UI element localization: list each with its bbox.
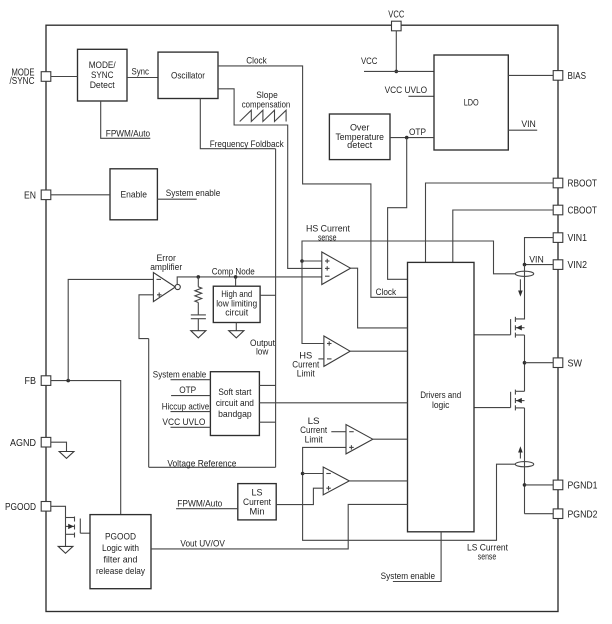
resistor R1 bbox=[195, 277, 202, 315]
sawtooth slope waveform bbox=[240, 110, 286, 121]
junction VIN node bbox=[523, 263, 527, 267]
svg-text:LS: LS bbox=[252, 487, 263, 497]
svg-text:LDO: LDO bbox=[464, 98, 479, 108]
wire PWM comparator output bbox=[351, 268, 408, 328]
wire SW rail bbox=[524, 335, 526, 391]
junction FB bbox=[66, 379, 70, 383]
wire HS limit output bbox=[350, 350, 407, 352]
wire System enable into soft start bbox=[171, 379, 211, 381]
wire VIN1 bbox=[525, 238, 554, 265]
junction PGND bbox=[523, 483, 527, 487]
svg-text:System enable: System enable bbox=[166, 188, 221, 198]
block LS Current Min bbox=[238, 484, 276, 520]
svg-text:low: low bbox=[256, 347, 269, 357]
wire AGND to ground bbox=[51, 442, 67, 451]
ground arrow output low bbox=[229, 331, 244, 338]
transistor Q2 LS fet bbox=[474, 390, 525, 411]
wire OTP into soft start bbox=[171, 395, 210, 397]
ground AGND bbox=[59, 452, 74, 459]
svg-text:Oscillator: Oscillator bbox=[171, 71, 205, 81]
wire LS current sense bbox=[303, 447, 516, 540]
wire voltage reference left edge bbox=[148, 339, 150, 468]
wire Frequency Foldback bbox=[200, 99, 275, 149]
pin RBOOT bbox=[553, 178, 563, 188]
wire Hiccup active into soft start bbox=[171, 411, 211, 413]
block MODE/SYNC Detect bbox=[78, 49, 128, 101]
svg-text:Min: Min bbox=[250, 506, 265, 516]
block PGOOD logic bbox=[90, 515, 151, 589]
junction comp node bbox=[234, 275, 238, 279]
svg-text:BIAS: BIAS bbox=[568, 71, 587, 82]
svg-text:VIN: VIN bbox=[521, 119, 536, 129]
chip boundary bbox=[46, 25, 558, 611]
svg-text:sense: sense bbox=[318, 233, 337, 243]
op-amp U4 LS current limit bbox=[346, 425, 373, 454]
wire VIN2 bbox=[525, 264, 554, 266]
svg-text:PGND1: PGND1 bbox=[568, 481, 598, 492]
current sense ellipse HS bbox=[515, 271, 533, 276]
wire HS current sense bbox=[302, 241, 515, 344]
block Over Temperature detect bbox=[329, 114, 390, 160]
svg-text:SYNC: SYNC bbox=[91, 70, 114, 80]
wire VIN rail to HS fet drain bbox=[516, 265, 525, 319]
svg-text:circuit: circuit bbox=[225, 308, 248, 318]
svg-text:VIN1: VIN1 bbox=[568, 233, 588, 244]
op-amp U3 HS current limit bbox=[324, 336, 350, 366]
wire slope compensation bbox=[218, 89, 322, 269]
svg-text:Drivers and: Drivers and bbox=[420, 390, 461, 400]
wire System enable stub bbox=[157, 198, 196, 200]
pin CBOOT bbox=[553, 205, 563, 215]
svg-text:Limit: Limit bbox=[305, 434, 323, 444]
wire soft start lower tap bbox=[259, 421, 275, 423]
svg-text:PGND2: PGND2 bbox=[568, 509, 598, 520]
block Enable bbox=[110, 169, 157, 220]
junction OTP bbox=[405, 136, 409, 140]
wire LS source rail bbox=[524, 408, 526, 514]
svg-text:EN: EN bbox=[24, 190, 36, 201]
transistor Q1 HS fet bbox=[474, 317, 525, 338]
svg-text:FPWM/Auto: FPWM/Auto bbox=[106, 129, 150, 139]
wire LS current min to zero cross plus bbox=[276, 488, 323, 504]
svg-text:Comp Node: Comp Node bbox=[212, 266, 255, 276]
wire limiting circuit right bbox=[260, 294, 276, 296]
block High and low limiting circuit bbox=[213, 286, 260, 322]
junction SW bbox=[523, 361, 527, 365]
junction comp resistor bbox=[197, 275, 201, 279]
wire Sync bbox=[127, 77, 158, 79]
pin VIN2 bbox=[553, 260, 563, 270]
wire OTP down to drivers bbox=[388, 138, 408, 280]
wire VCC UVLO stub bbox=[408, 95, 434, 97]
wire PGOOD pin to Q3 drain bbox=[51, 506, 66, 546]
pin PGND2 bbox=[553, 509, 563, 519]
op-amp U5 zero cross comparator bbox=[323, 467, 349, 495]
svg-text:VCC UVLO: VCC UVLO bbox=[162, 417, 205, 427]
svg-text:AGND: AGND bbox=[10, 438, 36, 449]
junction LS sense bbox=[301, 472, 305, 476]
wire to PGND1 pin bbox=[525, 484, 554, 486]
svg-text:Logic with: Logic with bbox=[102, 543, 139, 553]
wire voltage reference right edge bbox=[275, 149, 277, 468]
svg-text:VIN: VIN bbox=[529, 255, 544, 265]
wire error amp output bbox=[177, 277, 322, 285]
wire VIN stub from LDO bbox=[508, 129, 537, 131]
svg-text:VCC UVLO: VCC UVLO bbox=[385, 85, 428, 95]
svg-text:PGOOD: PGOOD bbox=[5, 502, 36, 513]
wire OTP to LDO bbox=[390, 137, 434, 139]
svg-text:VCC: VCC bbox=[361, 56, 378, 66]
block Oscillator bbox=[158, 52, 218, 98]
junction VCC bbox=[395, 70, 399, 74]
wire VCC pin drop bbox=[395, 31, 397, 72]
wire FB riser to inverting input bbox=[68, 279, 153, 380]
svg-text:logic: logic bbox=[432, 400, 450, 410]
svg-text:Soft start: Soft start bbox=[218, 387, 251, 397]
svg-text:Limit: Limit bbox=[297, 369, 315, 379]
wire VCC to LDO bbox=[364, 70, 434, 72]
svg-text:VIN2: VIN2 bbox=[568, 260, 588, 271]
svg-text:CBOOT: CBOOT bbox=[568, 206, 598, 217]
wire LS limit output bbox=[373, 438, 408, 440]
svg-text:SW: SW bbox=[568, 358, 583, 369]
svg-text:FB: FB bbox=[25, 376, 37, 387]
svg-text:System enable: System enable bbox=[153, 369, 207, 379]
svg-text:amplifier: amplifier bbox=[150, 262, 182, 272]
wire System enable bottom bbox=[393, 532, 441, 582]
pin MODE/SYNC bbox=[41, 72, 51, 82]
svg-text:OTP: OTP bbox=[409, 127, 426, 137]
pin SW bbox=[553, 358, 563, 368]
block Drivers and logic bbox=[408, 262, 475, 531]
svg-text:OTP: OTP bbox=[179, 385, 196, 395]
current arrow down bbox=[519, 279, 521, 291]
svg-text:Frequency Foldback: Frequency Foldback bbox=[210, 139, 284, 149]
wire MODE/SYNC pin to detect bbox=[51, 76, 78, 78]
pin VIN1 bbox=[553, 233, 563, 243]
svg-text:Current: Current bbox=[243, 497, 271, 507]
svg-text:/SYNC: /SYNC bbox=[10, 76, 35, 87]
wire reference to noninverting input bbox=[139, 295, 153, 339]
svg-text:FPWM/Auto: FPWM/Auto bbox=[177, 499, 222, 509]
wire zero cross output bbox=[349, 480, 407, 482]
svg-text:filter and: filter and bbox=[104, 554, 138, 564]
svg-text:Enable: Enable bbox=[120, 190, 147, 200]
ground PGOOD fet bbox=[58, 546, 73, 553]
wire HS sense to PWM comparator bbox=[302, 260, 322, 262]
wire EN pin to Enable bbox=[51, 194, 110, 196]
junction HS sense bbox=[300, 259, 304, 263]
wire FB to PGOOD logic bbox=[51, 381, 121, 515]
wire FPWM/Auto into LS current min bbox=[176, 508, 238, 510]
wire LS limit minus stub bbox=[331, 431, 346, 433]
op-amp U1 error amplifier bbox=[153, 273, 180, 302]
wire to SW pin bbox=[525, 362, 554, 364]
pin VCC bbox=[392, 21, 402, 31]
pin AGND bbox=[41, 437, 51, 447]
transistor Q3 pgood open drain bbox=[66, 517, 91, 538]
wire to PGND2 pin bbox=[525, 513, 554, 515]
svg-text:PGOOD: PGOOD bbox=[105, 531, 136, 541]
svg-text:release delay: release delay bbox=[96, 566, 145, 576]
wire voltage reference bottom edge bbox=[149, 466, 276, 468]
pin PGND1 bbox=[553, 480, 563, 490]
wire HS limit minus stub bbox=[318, 358, 324, 360]
wire VCC UVLO into soft start bbox=[171, 426, 211, 428]
current arrow up bbox=[519, 452, 521, 459]
svg-text:compensation: compensation bbox=[242, 99, 291, 109]
wire CBOOT bbox=[453, 210, 553, 262]
pin EN bbox=[41, 190, 51, 200]
svg-text:Clock: Clock bbox=[376, 287, 397, 297]
svg-text:Voltage Reference: Voltage Reference bbox=[167, 458, 236, 468]
svg-text:MODE/: MODE/ bbox=[89, 60, 116, 70]
svg-text:Detect: Detect bbox=[90, 80, 115, 90]
op-amp U2 PWM comparator bbox=[322, 252, 351, 285]
wire FPWM/Auto from detect bbox=[101, 101, 151, 138]
svg-text:Sync: Sync bbox=[131, 66, 149, 76]
svg-text:VCC: VCC bbox=[388, 10, 404, 21]
svg-text:circuit and: circuit and bbox=[216, 398, 254, 408]
svg-text:Vout UV/OV: Vout UV/OV bbox=[180, 539, 225, 549]
capacitor C1 bbox=[191, 315, 206, 331]
wire soft start to drivers bbox=[259, 402, 407, 404]
block LDO bbox=[434, 55, 508, 150]
svg-text:Clock: Clock bbox=[246, 56, 267, 66]
svg-text:RBOOT: RBOOT bbox=[568, 179, 598, 190]
svg-text:sense: sense bbox=[478, 552, 497, 562]
wire LS sense to zero cross comparator bbox=[303, 473, 324, 475]
wire Vout UV/OV bbox=[151, 504, 408, 549]
wire Clock bbox=[218, 66, 408, 297]
wire soft start upper tap bbox=[259, 384, 275, 386]
current sense ellipse LS bbox=[515, 462, 533, 467]
block Soft start circuit and bandgap bbox=[210, 372, 259, 436]
svg-text:bandgap: bandgap bbox=[218, 409, 252, 419]
pin PGOOD bbox=[41, 502, 51, 512]
svg-text:detect: detect bbox=[347, 140, 372, 150]
pin FB bbox=[41, 376, 51, 386]
wire BIAS bbox=[508, 74, 553, 76]
ground under C1 bbox=[191, 331, 206, 338]
wire LS fet drain bbox=[516, 390, 525, 392]
pin BIAS bbox=[553, 71, 563, 81]
wire RBOOT bbox=[426, 183, 554, 262]
svg-text:System enable: System enable bbox=[381, 571, 436, 581]
wire comp node into limiting circuit bbox=[235, 277, 237, 286]
wire limiting circuit to output low bbox=[235, 323, 237, 331]
svg-text:Hiccup active: Hiccup active bbox=[162, 402, 210, 412]
